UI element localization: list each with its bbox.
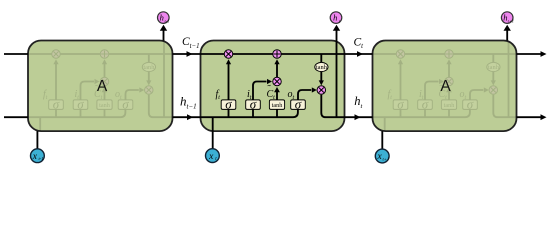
- svg-text:t+1: t+1: [508, 18, 514, 23]
- svg-text:h: h: [333, 13, 337, 23]
- input x_t circle below middle cell: [206, 131, 220, 162]
- output h_{t-1} circle above left cell: [158, 12, 170, 41]
- ghost internals of right cell: [373, 41, 517, 132]
- output h_{t+1} circle above right cell: [501, 12, 514, 41]
- arrowhead C into middle cell: [187, 51, 193, 57]
- internals of middle cell: [201, 41, 345, 132]
- arrowhead C into right cell: [357, 51, 363, 57]
- output h_t circle above middle cell: [330, 12, 342, 41]
- svg-text:x: x: [208, 152, 214, 162]
- right cell box A(t+1): [373, 41, 517, 132]
- svg-text:h: h: [160, 13, 164, 23]
- wire: h line exit right: [517, 116, 543, 118]
- svg-text:t-1: t-1: [38, 156, 43, 161]
- arrowhead h into middle cell: [187, 114, 193, 120]
- svg-text:A: A: [97, 78, 108, 95]
- wire: left edge h stub: [4, 116, 28, 118]
- wire: C line gap left-to-middle: [173, 53, 201, 55]
- input x_{t+1} circle below right cell: [375, 131, 389, 163]
- wire: C line exit right: [517, 53, 543, 55]
- arrowhead C exit right edge: [541, 51, 547, 57]
- arrowhead h exit right edge: [541, 114, 547, 120]
- svg-text:A: A: [440, 78, 451, 95]
- svg-text:t+1: t+1: [382, 157, 389, 162]
- middle cell box (detailed LSTM cell): [201, 41, 345, 132]
- svg-text:x: x: [32, 152, 38, 162]
- svg-text:t-1: t-1: [164, 18, 169, 23]
- ghost internals of left cell: [28, 41, 172, 132]
- wire: h line gap middle-to-right: [345, 116, 373, 118]
- wire: h line gap left-to-middle: [173, 116, 201, 118]
- wire: left edge C stub: [4, 53, 28, 55]
- wire: C line gap middle-to-right: [345, 53, 373, 55]
- arrowhead h into right cell: [355, 114, 361, 120]
- input x_{t-1} circle below left cell: [31, 131, 45, 163]
- left cell box A(t-1): [28, 41, 173, 132]
